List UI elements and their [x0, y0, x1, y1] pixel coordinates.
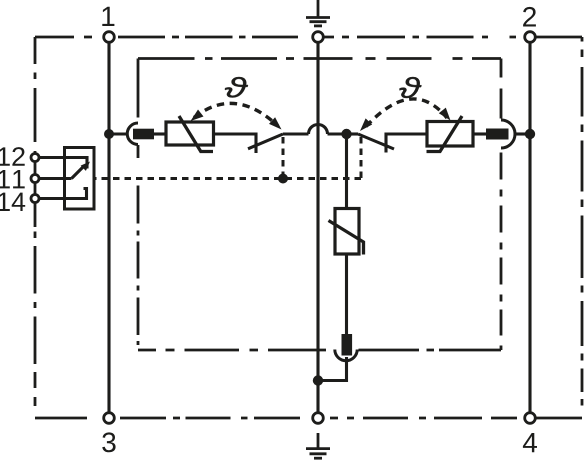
- wire: bump to node B: [328, 132, 347, 135]
- wire: F2 post to varistor RV2: [386, 134, 427, 153]
- plug-in disconnection contact left (plug bar): [133, 129, 154, 140]
- wire: plug to node C: [515, 132, 531, 135]
- label terminal 2: [523, 7, 536, 27]
- FM remote signalling contact box: [65, 148, 95, 210]
- wire: node B to thermal disconnect F2: [347, 132, 359, 135]
- terminal 14: [31, 195, 39, 203]
- wire: plug bottom to node D on earth conductor: [318, 357, 347, 381]
- terminal 11: [31, 175, 39, 183]
- label terminal 12: [0, 147, 25, 166]
- plug-in disconnection contact right (plug bar): [486, 129, 509, 140]
- wire: F1 to crossover bump: [283, 132, 309, 135]
- label terminal 4: [523, 433, 537, 452]
- FM changeover blade with arrow: [72, 166, 85, 179]
- label terminal 14: [0, 193, 25, 211]
- terminal 12: [31, 154, 39, 162]
- thermal disconnect switch F1 blade: [248, 134, 283, 149]
- protection module outline bottom edge (dash-dot): [138, 349, 501, 352]
- control linkage: dotted bar to FM contact: [94, 177, 361, 180]
- wire: crossover bump over centre conductor: [309, 125, 328, 134]
- earth terminal bottom: [313, 413, 324, 424]
- plug-in disconnection contact bottom (socket arc): [335, 350, 357, 361]
- label terminal 1: [102, 7, 114, 26]
- theta label right: [400, 77, 422, 98]
- node B junction dot: [341, 129, 351, 139]
- label terminal 3: [102, 432, 115, 452]
- device outline bottom edge (dash-dot): [35, 417, 582, 420]
- wire: terminal 11 to common: [35, 177, 72, 180]
- plug-in disconnection contact right (socket arc): [501, 120, 515, 148]
- wire: terminal 14 to NO contact: [35, 189, 87, 199]
- ground symbol bottom: [306, 433, 330, 458]
- device outline left edge (dash-dot): [34, 37, 37, 418]
- wire: plug to varistor RV1: [154, 132, 166, 135]
- earth terminal top: [313, 32, 324, 43]
- node C junction dot: [525, 129, 535, 139]
- varistor RV1 diagonal: [179, 116, 213, 152]
- thermal disconnect switch F2 blade: [358, 134, 394, 149]
- thermal trip arc left (dashed, arrows both ends): [194, 103, 278, 126]
- wire: terminal 12 to NC contact: [35, 158, 87, 169]
- control linkage: dashed link F2 blade to bar: [360, 137, 363, 179]
- ground symbol top: [306, 0, 330, 26]
- thermal trip arc right (dashed, arrows both ends): [366, 99, 447, 127]
- wire: left branch from node A to plug contact: [109, 132, 128, 135]
- varistor RV2 body: [427, 122, 473, 147]
- protection module outline left edge (dash-dot): [137, 59, 140, 123]
- wire: RV3 to plug contact bottom: [345, 254, 348, 334]
- wire: right conductor terminal 2 to terminal 4: [528, 37, 531, 418]
- theta label left: [225, 77, 248, 98]
- terminal 1: [104, 32, 115, 43]
- wire: node B down to varistor RV3: [345, 134, 348, 209]
- varistor RV3 body (vertical): [335, 209, 359, 255]
- terminal 4: [525, 413, 536, 424]
- plug-in disconnection contact left (socket arc): [127, 123, 138, 145]
- terminal 2: [525, 32, 536, 43]
- node A junction dot: [104, 129, 114, 139]
- wire: left conductor terminal 1 to terminal 3: [107, 37, 110, 418]
- device outline top edge (dash-dot): [35, 36, 582, 39]
- protection module outline top edge (dash-dot): [138, 57, 501, 60]
- varistor RV1 body: [166, 122, 214, 145]
- wire: centre earth conductor: [316, 37, 319, 418]
- varistor RV3 diagonal: [329, 221, 364, 255]
- plug-in disconnection contact bottom (plug bar): [342, 334, 353, 356]
- varistor RV2 diagonal: [427, 116, 463, 152]
- node D junction dot: [313, 375, 323, 385]
- label terminal 11: [0, 170, 25, 188]
- control linkage junction dot: [278, 174, 288, 184]
- terminal 3: [104, 413, 115, 424]
- device outline right edge (dash-dot): [581, 37, 584, 418]
- control linkage: dashed link F1 blade to bar: [282, 137, 285, 179]
- protection module outline right edge (dash-dot): [500, 59, 503, 121]
- wire: varistor RV2 to plug contact right: [473, 132, 486, 135]
- wire: varistor RV1 to thermal disconnect F1: [214, 134, 257, 153]
